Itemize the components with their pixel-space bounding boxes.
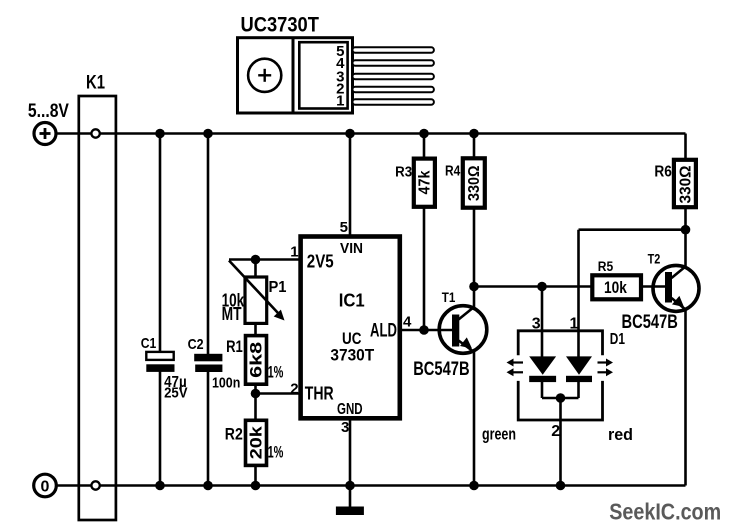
wire IC pin 2 THR	[256, 392, 301, 395]
wire VIN pin 5	[349, 134, 352, 237]
svg-text:T1: T1	[442, 290, 456, 305]
wire R6 top	[684, 134, 687, 160]
junction bottom rail / D1 pin 2	[556, 481, 566, 491]
svg-text:3: 3	[532, 315, 541, 332]
wire T2 emitter vertical	[684, 309, 687, 486]
wire T2 collector vertical	[684, 230, 687, 267]
UC3730T package drawing	[238, 14, 434, 113]
junction top rail / R3	[419, 129, 429, 139]
svg-text:5...8V: 5...8V	[28, 100, 69, 122]
wire R5 to T2 base	[641, 285, 666, 288]
transistor T1	[413, 290, 487, 380]
svg-text:R3: R3	[395, 163, 412, 180]
svg-text:25V: 25V	[164, 385, 188, 402]
junction top rail / R4	[469, 129, 479, 139]
junction bottom rail / R2	[251, 481, 261, 491]
wire R6 bottom	[684, 207, 687, 230]
svg-text:P1: P1	[269, 279, 287, 296]
svg-text:D1: D1	[610, 331, 625, 348]
wire R3 bottom to T1 base	[423, 207, 426, 330]
package pin 2	[353, 87, 434, 92]
resistor R4	[445, 158, 485, 207]
wire D1 pin 3 vertical	[541, 287, 544, 358]
wire red cathode stub	[577, 381, 580, 398]
terminal 0	[34, 474, 57, 497]
op-amp IC1 UC3730T box	[301, 237, 400, 419]
junction bottom rail / C2	[203, 481, 213, 491]
junction bottom rail / GND	[345, 481, 355, 491]
wire R4 top	[473, 134, 476, 159]
svg-text:R4: R4	[445, 163, 461, 180]
svg-text:C2: C2	[188, 336, 204, 353]
junction top rail / VIN	[345, 129, 355, 139]
node open circle top rail	[91, 129, 99, 137]
svg-text:R2: R2	[225, 424, 243, 443]
svg-text:47k: 47k	[417, 170, 434, 194]
junction node 2V5 / P1	[251, 255, 261, 265]
junction node ALD / R3 / T1 base	[419, 325, 429, 335]
svg-text:C1: C1	[141, 335, 157, 352]
LED green (left)	[507, 356, 557, 382]
svg-text:3730T: 3730T	[330, 345, 374, 364]
wire bottom rail	[56, 484, 686, 487]
resistor R3	[395, 159, 435, 207]
svg-text:2V5: 2V5	[307, 252, 334, 272]
wire C1 branch	[159, 134, 162, 353]
potentiometer P1	[222, 261, 287, 325]
svg-text:3: 3	[341, 419, 349, 436]
svg-text:0: 0	[41, 479, 50, 496]
svg-text:BC547B: BC547B	[413, 358, 469, 380]
wire R3 top	[423, 134, 426, 159]
resistor R2	[225, 420, 284, 465]
capacitor C1	[141, 335, 188, 401]
svg-text:330Ω: 330Ω	[677, 166, 694, 204]
wire P1 to R1	[254, 323, 257, 335]
svg-text:T2: T2	[648, 251, 661, 267]
dual LED D1 box	[518, 331, 625, 420]
junction R6 / T2 collector / D1 pin 1	[681, 225, 691, 235]
wire T2 collector to D1 pin1	[579, 228, 686, 231]
wire IC pin 1	[229, 258, 301, 261]
wire C2 branch	[207, 134, 210, 355]
wire green cathode stub	[541, 381, 544, 398]
svg-text:K1: K1	[86, 73, 105, 94]
junction T1 collector / R4	[469, 282, 479, 292]
LED red (right)	[566, 356, 613, 382]
svg-text:330Ω: 330Ω	[466, 166, 483, 202]
terminal + (5...8V)	[34, 123, 56, 145]
svg-text:THR: THR	[305, 384, 334, 404]
wire D1 pin 1 vertical	[577, 230, 580, 357]
svg-text:2: 2	[290, 381, 298, 398]
svg-text:UC3730T: UC3730T	[241, 14, 320, 37]
svg-text:BC547B: BC547B	[622, 311, 678, 333]
svg-text:GND: GND	[337, 401, 363, 418]
wire R4 bottom to T1 collector	[473, 208, 476, 308]
svg-text:green: green	[482, 425, 516, 444]
resistor R5	[592, 259, 641, 299]
svg-text:6k8: 6k8	[248, 342, 266, 378]
package pin 3	[353, 74, 434, 79]
svg-text:R5: R5	[598, 259, 614, 274]
svg-text:1%: 1%	[268, 363, 284, 382]
svg-text:VIN: VIN	[340, 240, 363, 257]
wire T1 emitter down	[473, 351, 476, 486]
svg-text:4: 4	[403, 314, 412, 331]
junction D1 common cathode	[556, 393, 566, 403]
wire IC pin 4 ALD to T1 base	[400, 329, 453, 332]
junction bottom rail / C1	[155, 481, 165, 491]
package pin 1	[353, 99, 434, 104]
junction bottom rail / T1 emitter	[469, 481, 479, 491]
wire R1 bottom	[254, 384, 257, 393]
svg-text:SeekIC.com: SeekIC.com	[609, 499, 721, 525]
wire junction to P1 top	[254, 260, 257, 278]
junction D1 pin 3 branch	[537, 282, 547, 292]
junction node THR / R1 / R2	[251, 389, 261, 399]
junction top rail / C1	[155, 129, 165, 139]
svg-text:5: 5	[340, 219, 348, 236]
wire cathode connector	[542, 397, 579, 400]
svg-text:1: 1	[570, 315, 579, 332]
wire D1 pin 2 down	[559, 398, 562, 486]
wire R2 bottom	[254, 465, 257, 485]
resistor R6	[654, 160, 696, 207]
svg-text:20k: 20k	[248, 425, 266, 459]
wire IC pin 3 GND	[349, 418, 352, 506]
svg-text:1%: 1%	[268, 442, 284, 461]
svg-text:100n: 100n	[212, 375, 240, 392]
wire top rail	[56, 132, 686, 135]
svg-text:IC1: IC1	[339, 291, 365, 311]
wire R2 top	[254, 394, 257, 421]
connector K1	[79, 96, 116, 520]
svg-text:R1: R1	[226, 337, 243, 356]
transistor T2	[622, 251, 700, 334]
svg-text:R6: R6	[654, 164, 672, 181]
svg-text:2: 2	[551, 423, 560, 440]
svg-text:1: 1	[336, 93, 344, 110]
junction top rail / C2	[203, 129, 213, 139]
svg-text:1: 1	[290, 243, 298, 260]
capacitor C2	[188, 336, 241, 392]
svg-text:ALD: ALD	[370, 321, 397, 342]
package pin 4	[353, 60, 434, 65]
resistor R1	[226, 336, 283, 385]
wire T1 collector to R5	[474, 285, 592, 288]
svg-text:10k: 10k	[604, 278, 627, 297]
svg-text:red: red	[608, 425, 633, 444]
package pin 5	[353, 47, 434, 52]
svg-text:MT: MT	[222, 304, 242, 324]
ground	[336, 507, 364, 516]
node open circle bottom rail	[91, 481, 99, 489]
